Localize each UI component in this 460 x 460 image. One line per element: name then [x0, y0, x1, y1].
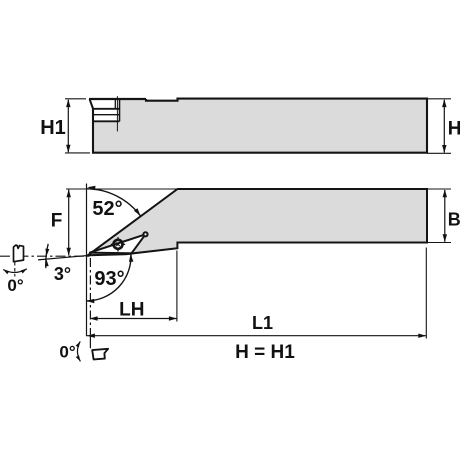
svg-text:0°: 0° — [7, 276, 23, 295]
svg-text:H = H1: H = H1 — [235, 342, 295, 363]
svg-text:3°: 3° — [54, 264, 71, 284]
svg-text:H1: H1 — [40, 117, 66, 139]
svg-text:L1: L1 — [252, 313, 273, 333]
svg-text:B: B — [448, 209, 460, 229]
svg-text:93°: 93° — [94, 268, 124, 290]
svg-text:52°: 52° — [92, 198, 122, 220]
svg-text:0°: 0° — [59, 342, 75, 361]
svg-text:H: H — [448, 118, 460, 139]
svg-text:LH: LH — [119, 299, 144, 320]
svg-text:F: F — [51, 211, 63, 232]
